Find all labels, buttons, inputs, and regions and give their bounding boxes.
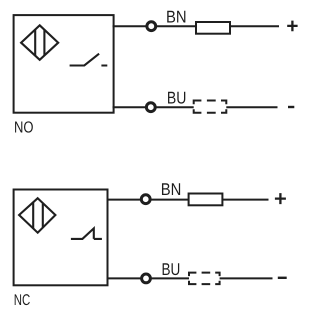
diamond inner bar 1 (U1) bbox=[34, 29, 36, 56]
wire: BN terminal to load resistor bbox=[156, 25, 196, 27]
sensor body outline U1 (NO type) bbox=[14, 15, 114, 113]
dashed load box (NC diagram) bbox=[189, 273, 220, 285]
dashed load box (NO diagram) bbox=[194, 101, 227, 113]
diamond inner bar 1 (U2) bbox=[32, 202, 34, 228]
wire: NC box to BU terminal bbox=[108, 277, 142, 279]
NC contact switch S2 bbox=[71, 228, 102, 239]
svg-text:BN: BN bbox=[166, 7, 187, 26]
svg-text:BU: BU bbox=[162, 260, 181, 279]
svg-text:NO: NO bbox=[14, 120, 34, 137]
sensor body outline U2 (NC type) bbox=[14, 190, 108, 286]
plus terminal (NO diagram) bbox=[287, 21, 297, 32]
minus terminal (NC diagram) bbox=[278, 277, 287, 279]
load resistor box (NC diagram, solid) bbox=[189, 194, 223, 206]
terminal circle BU (NO diagram) bbox=[146, 103, 155, 112]
terminal circle BN (NO diagram) bbox=[147, 22, 156, 31]
terminal circle BU (NC diagram) bbox=[142, 274, 151, 283]
diamond inner bar 2 (U2) bbox=[42, 204, 44, 228]
wire: BN terminal to load resistor (NC) bbox=[150, 199, 188, 201]
svg-text:BN: BN bbox=[161, 180, 182, 199]
terminal circle BN (NC diagram) bbox=[141, 195, 150, 204]
wire: NC box to BN terminal bbox=[108, 199, 142, 201]
wire: load resistor to plus (NC) bbox=[222, 199, 268, 201]
load resistor box (NO diagram, solid) bbox=[196, 22, 230, 34]
svg-text:BU: BU bbox=[167, 89, 187, 108]
wire: BU terminal to dashed load bbox=[155, 106, 193, 108]
wire: dashed load to minus (NC) bbox=[220, 277, 273, 279]
wire: dashed load to minus bbox=[226, 106, 277, 108]
minus terminal (NO diagram) bbox=[288, 106, 294, 108]
proximity sensor symbol diamond (U1) bbox=[21, 25, 58, 60]
proximity sensor symbol diamond (U2) bbox=[19, 198, 55, 233]
wire: BU terminal to dashed load (NC) bbox=[151, 277, 190, 279]
diamond inner bar 2 (U1) bbox=[43, 30, 45, 56]
NO contact switch S1 bbox=[70, 54, 108, 66]
svg-text:NC: NC bbox=[14, 292, 31, 309]
wire: load resistor to plus bbox=[230, 25, 279, 27]
wire: NO box to BN terminal bbox=[113, 25, 147, 27]
wire: NO box to BU terminal bbox=[113, 106, 147, 108]
plus terminal (NC diagram) bbox=[275, 193, 286, 204]
